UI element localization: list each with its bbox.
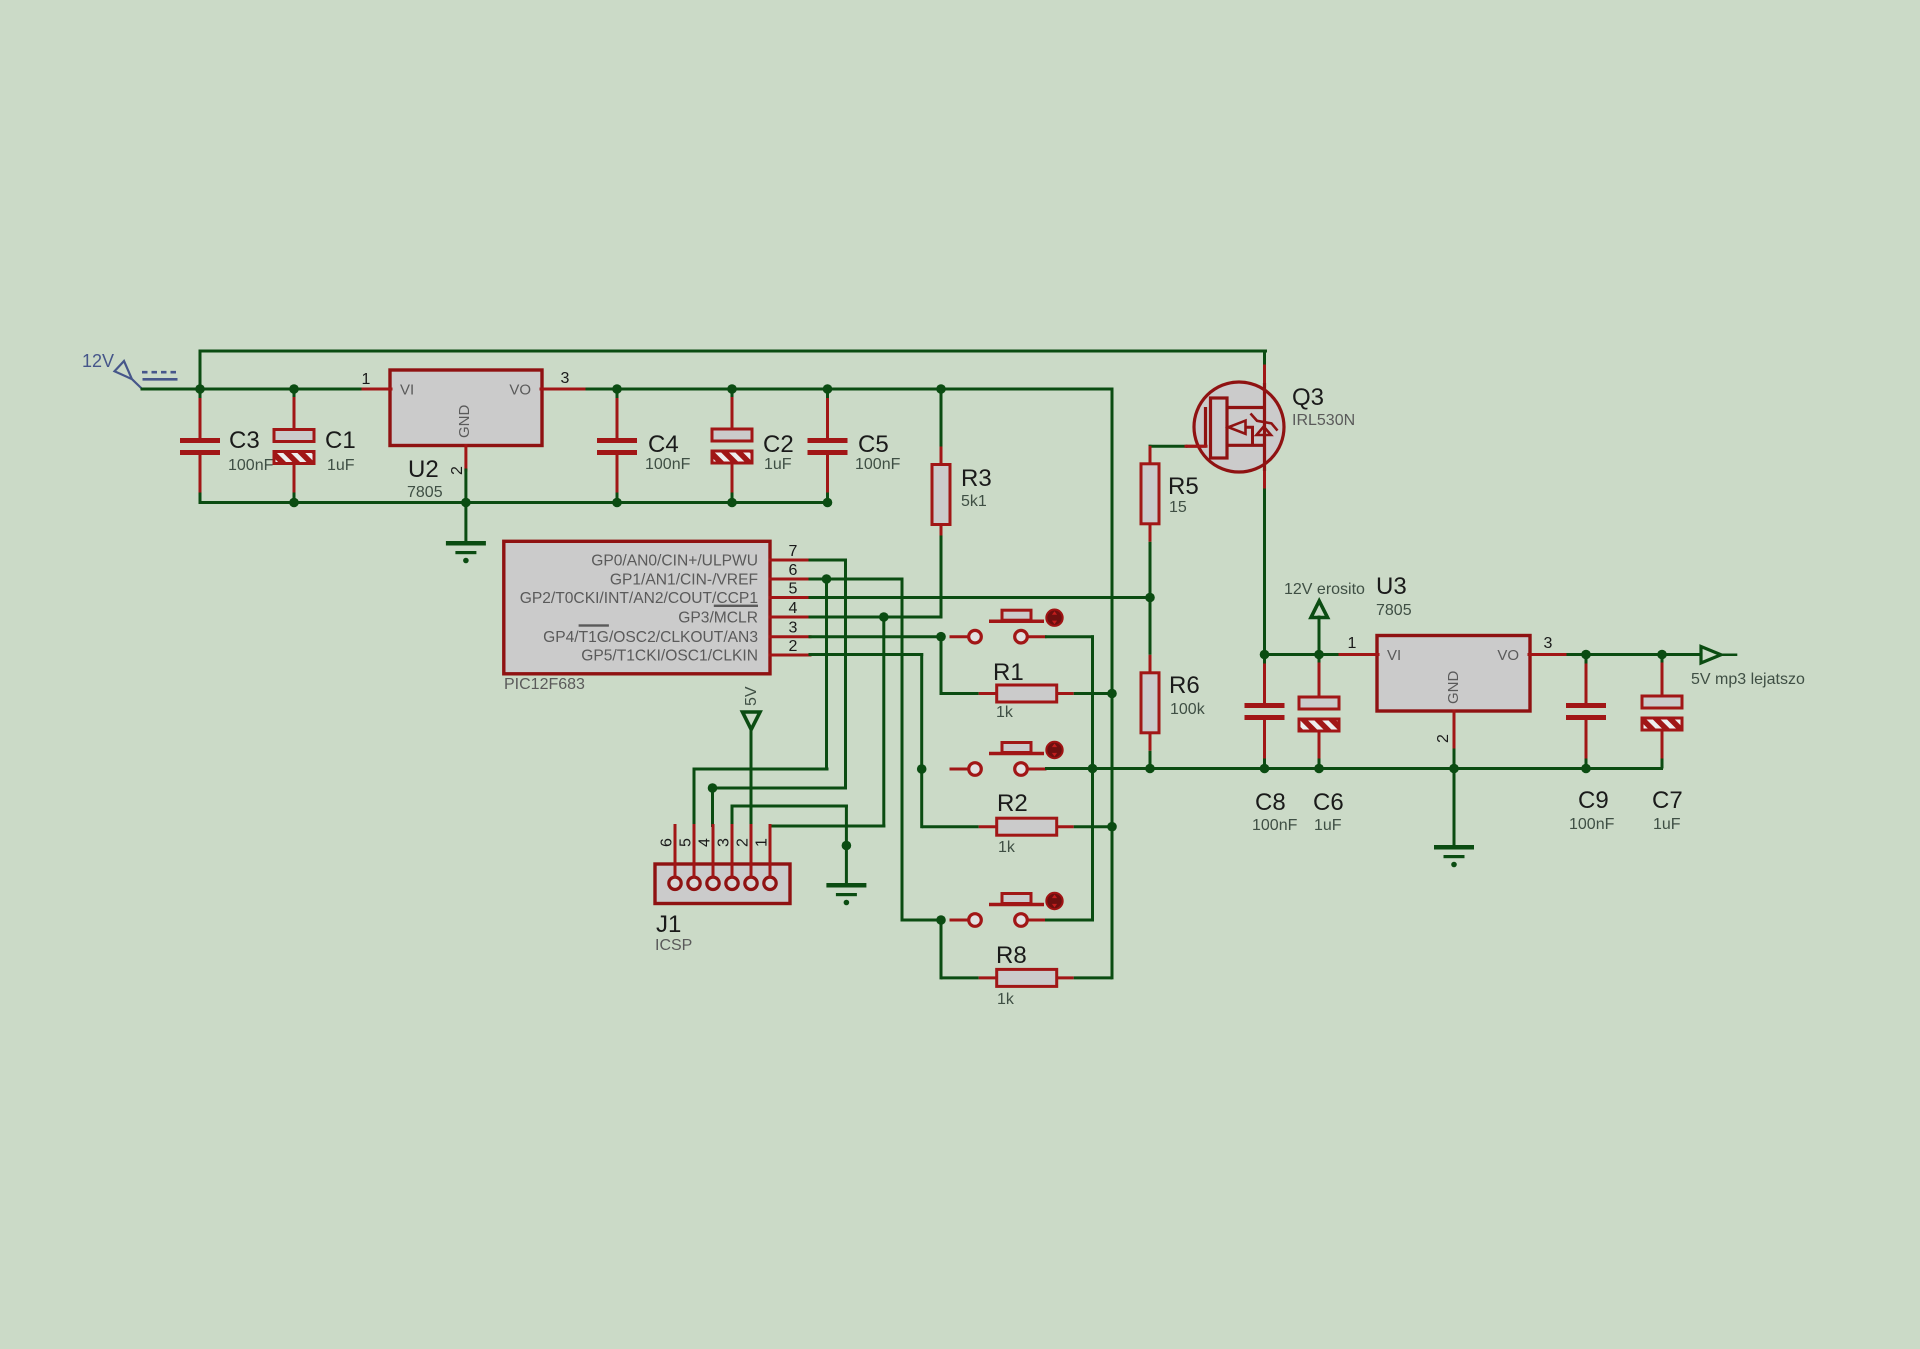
svg-text:GP0/AN0/CIN+/ULPWU: GP0/AN0/CIN+/ULPWU — [591, 553, 758, 570]
wire 12V input to U2 VI — [142, 388, 363, 391]
svg-text:C9: C9 — [1578, 787, 1609, 814]
wire Q3 source down to 12V-switched node — [1263, 490, 1266, 655]
svg-text:J1: J1 — [656, 911, 681, 938]
svg-text:15: 15 — [1169, 499, 1187, 516]
junction GP2/R5/R6 — [1145, 593, 1155, 603]
PIC pin 7 stub — [770, 559, 810, 562]
svg-text:4: 4 — [697, 838, 714, 847]
svg-text:3: 3 — [789, 620, 798, 637]
capacitor C7 (electrolytic) — [1642, 655, 1682, 769]
capacitor C5 — [808, 389, 848, 503]
svg-text:U2: U2 — [408, 456, 439, 483]
J1 pin 6 — [669, 877, 681, 889]
svg-text:1: 1 — [362, 371, 371, 388]
wire button3 to gnd column — [1047, 919, 1093, 922]
svg-text:12V: 12V — [82, 351, 114, 371]
junction C8 on gnd rail — [1260, 764, 1270, 774]
U3 pin 2 stub — [1453, 711, 1456, 750]
wire GP1 vertical to button 3 — [901, 579, 904, 920]
svg-text:1: 1 — [1348, 635, 1357, 652]
svg-text:VO: VO — [509, 382, 531, 399]
resistor R2 1k — [922, 818, 1112, 835]
svg-text:1uF: 1uF — [1314, 817, 1342, 834]
svg-text:2: 2 — [735, 838, 752, 847]
PIC pin 3 stub — [770, 635, 810, 638]
wire ICSP gnd horizontal — [732, 805, 846, 808]
svg-text:ICSP: ICSP — [655, 937, 692, 954]
PIC pin 4 stub — [770, 616, 810, 619]
wire 5V rail (U2 VO) — [584, 388, 1112, 391]
junction 5V rail x=617 — [612, 384, 622, 394]
junction bottom rail x=465.9 — [461, 498, 471, 508]
IC U1 PIC12F683 box — [504, 541, 770, 674]
PIC pin 5 stub — [770, 596, 810, 599]
wire Q3 gate — [1150, 445, 1186, 448]
capacitor C3 — [180, 389, 220, 503]
svg-text:C4: C4 — [648, 431, 679, 458]
wire 5V to ICSP pin 2 — [750, 730, 753, 826]
svg-text:100nF: 100nF — [1252, 817, 1298, 834]
svg-text:6: 6 — [659, 838, 676, 847]
svg-text:3: 3 — [1544, 635, 1553, 652]
U3 pin 3 stub — [1529, 653, 1568, 656]
svg-text:5V mp3 lejatszo: 5V mp3 lejatszo — [1691, 671, 1805, 688]
svg-text:R6: R6 — [1169, 672, 1200, 699]
wire ICSP mclr horizontal (J1 pin 1) — [770, 825, 884, 828]
ground for U2 — [446, 541, 486, 563]
wire GP5 vertical to button 2 — [920, 655, 923, 770]
junction C6 on gnd rail — [1314, 764, 1324, 774]
junction bottom rail x=617 — [612, 498, 622, 508]
svg-text:100nF: 100nF — [645, 456, 691, 473]
svg-text:C7: C7 — [1652, 787, 1683, 814]
J1 pin 4 — [707, 877, 719, 889]
junction 5V rail x=941 — [936, 384, 946, 394]
junction ICSP dat corner — [708, 783, 718, 793]
resistor R3 5k1 — [932, 389, 950, 617]
junction GP4 node — [936, 632, 946, 642]
junction 5V rail x=827.5 — [823, 384, 833, 394]
svg-text:4: 4 — [789, 600, 798, 617]
capacitor C9 — [1566, 655, 1606, 769]
Q3 drain/source pin line — [1263, 366, 1266, 490]
resistor R1 1k — [941, 685, 1112, 702]
junction R1 to 5V feed — [1107, 689, 1117, 699]
overline over T1G — [579, 624, 609, 626]
svg-text:IRL530N: IRL530N — [1292, 412, 1355, 429]
svg-text:100nF: 100nF — [1569, 816, 1615, 833]
J1 pin 3 — [726, 877, 738, 889]
wire 5V feed down right side — [1111, 389, 1114, 978]
svg-text:1k: 1k — [997, 991, 1015, 1008]
U2 pin 1 stub — [363, 388, 391, 391]
wire GP1 down to R8 — [940, 920, 943, 978]
junction buttons-gnd on rail — [1088, 764, 1098, 774]
svg-text:C2: C2 — [763, 431, 794, 458]
wire GP5 down to R2 — [920, 769, 923, 827]
svg-text:3: 3 — [561, 370, 570, 387]
junction U3 gnd on rail — [1449, 764, 1459, 774]
svg-text:1k: 1k — [998, 839, 1016, 856]
junction GP1 / ICSP clk — [822, 574, 832, 584]
svg-text:2: 2 — [449, 466, 466, 475]
svg-text:C8: C8 — [1255, 789, 1286, 816]
svg-text:GP2/T0CKI/INT/AN2/COUT/CCP1: GP2/T0CKI/INT/AN2/COUT/CCP1 — [520, 590, 758, 607]
wire GP0 from pin 7 — [810, 559, 846, 562]
svg-text:100k: 100k — [1170, 701, 1206, 718]
PIC pin 2 stub — [770, 654, 810, 657]
wire ICSP gnd down to ground — [845, 806, 848, 883]
capacitor C6 (electrolytic) — [1299, 655, 1339, 769]
wire GP3/MCLR from pin 4 — [810, 616, 941, 619]
svg-text:R5: R5 — [1168, 473, 1199, 500]
wire GP1 from pin 6 — [810, 578, 902, 581]
DC symbol dashes — [142, 371, 178, 374]
junction C8 node — [1260, 650, 1270, 660]
svg-text:2: 2 — [1435, 734, 1452, 743]
ground for ICSP — [826, 883, 866, 905]
junction on gnd drop — [842, 841, 852, 851]
transistor Q3 IRL530N (N-MOSFET) — [1186, 382, 1284, 472]
svg-text:R3: R3 — [961, 465, 992, 492]
wire GP2/CCP1 from pin 5 to gate network — [810, 596, 1150, 599]
svg-text:GND: GND — [1445, 671, 1462, 705]
wire Q3 source to U3 VI — [1265, 653, 1341, 656]
wire GP0 vertical — [844, 560, 847, 788]
capacitor C8 — [1245, 655, 1285, 769]
overline over MCLR — [714, 605, 758, 607]
junction 12V rail x=200 — [195, 384, 205, 394]
junction MCLR / ICSP pin1 — [879, 612, 889, 622]
resistor R8 1k — [941, 969, 1112, 986]
capacitor C4 — [597, 389, 637, 503]
junction C9 on gnd rail — [1581, 764, 1591, 774]
svg-text:GND: GND — [456, 405, 473, 439]
svg-text:12V erosito: 12V erosito — [1284, 581, 1365, 598]
svg-text:C1: C1 — [325, 427, 356, 454]
junction GP1 node — [936, 915, 946, 925]
wire ICSP clk vertical — [825, 579, 828, 769]
wire ICSP dat horizontal — [713, 787, 846, 790]
wire power flag to node — [1318, 617, 1321, 655]
svg-text:1k: 1k — [996, 704, 1014, 721]
J1 pin 1 — [764, 877, 776, 889]
svg-text:6: 6 — [789, 562, 798, 579]
svg-text:5: 5 — [678, 838, 695, 847]
svg-text:R2: R2 — [997, 790, 1028, 817]
svg-text:GP3/MCLR: GP3/MCLR — [678, 610, 758, 627]
wire GP5 from pin 2 — [810, 653, 922, 656]
svg-text:R1: R1 — [993, 659, 1024, 686]
svg-text:Q3: Q3 — [1292, 384, 1324, 411]
push-button SW3 (GP1) — [950, 893, 1063, 927]
wire left drop to C3 — [199, 351, 202, 400]
svg-text:1uF: 1uF — [327, 457, 355, 474]
svg-text:R8: R8 — [996, 942, 1027, 969]
svg-text:C6: C6 — [1313, 789, 1344, 816]
svg-text:7805: 7805 — [1376, 602, 1412, 619]
svg-text:100nF: 100nF — [855, 456, 901, 473]
svg-text:C5: C5 — [858, 431, 889, 458]
junction bottom rail x=827.5 — [823, 498, 833, 508]
capacitor C2 (electrolytic) — [712, 389, 752, 503]
svg-text:VI: VI — [400, 382, 414, 399]
resistor R5 15 — [1141, 446, 1159, 598]
junction GP5 node — [917, 764, 927, 774]
svg-text:VO: VO — [1497, 647, 1519, 664]
junction bottom rail x=294 — [289, 498, 299, 508]
wire down to J1 pin 4 — [711, 788, 714, 826]
junction C9 node — [1581, 650, 1591, 660]
svg-text:2: 2 — [789, 638, 798, 655]
wire ground rail — [1047, 767, 1662, 770]
wire MCLR up to R3 — [940, 537, 943, 617]
wire button1 to gnd column — [1047, 635, 1093, 638]
wire 12V rail down to Q3 drain — [1263, 351, 1266, 366]
junction 12V rail x=294 — [289, 384, 299, 394]
svg-text:5V: 5V — [743, 686, 760, 706]
12V input terminal arrow — [115, 361, 143, 390]
junction C6 node — [1314, 650, 1324, 660]
wire down to J1 pin 3 — [731, 806, 734, 826]
wire C3 bottom to rail — [199, 492, 202, 503]
ground for U3 — [1434, 845, 1474, 867]
wire U3 VO to output — [1568, 653, 1701, 656]
wire buttons gnd column — [1091, 637, 1094, 920]
svg-text:GP5/T1CKI/OSC1/CLKIN: GP5/T1CKI/OSC1/CLKIN — [581, 648, 758, 665]
J1 pin 2 — [745, 877, 757, 889]
wire ICSP clk horizontal — [694, 768, 827, 771]
svg-text:PIC12F683: PIC12F683 — [504, 676, 585, 693]
svg-text:U3: U3 — [1376, 573, 1407, 600]
wire GP4 from pin 3 to button 1 — [810, 635, 941, 638]
PIC pin 6 stub — [770, 578, 810, 581]
svg-text:GP1/AN1/CIN-/VREF: GP1/AN1/CIN-/VREF — [610, 572, 758, 589]
wire MCLR down to ICSP — [882, 617, 885, 826]
svg-text:7: 7 — [789, 543, 798, 560]
junction C7 node — [1657, 650, 1667, 660]
svg-text:5k1: 5k1 — [961, 493, 987, 510]
junction R6 on rail — [1145, 764, 1155, 774]
regulator U2 7805 box — [390, 370, 542, 446]
svg-text:1: 1 — [754, 838, 771, 847]
U3 pin 1 stub — [1340, 653, 1378, 656]
junction 5V rail x=732 — [727, 384, 737, 394]
regulator U3 7805 box — [1377, 636, 1530, 712]
U2 pin 3 stub — [541, 388, 584, 391]
junction R2 to 5V feed — [1107, 822, 1117, 832]
svg-text:5: 5 — [789, 581, 798, 598]
capacitor C1 (electrolytic) — [274, 389, 314, 503]
svg-text:VI: VI — [1387, 647, 1401, 664]
push-button SW1 (GP4) — [950, 610, 1063, 644]
svg-text:100nF: 100nF — [228, 457, 274, 474]
wire GP4 down to R1 — [940, 637, 943, 694]
svg-text:1uF: 1uF — [1653, 816, 1681, 833]
svg-text:C3: C3 — [229, 427, 260, 454]
svg-text:1uF: 1uF — [764, 456, 792, 473]
svg-text:3: 3 — [716, 838, 733, 847]
U2 pin 2 (GND) stub — [464, 446, 467, 471]
junction bottom rail x=732 — [727, 498, 737, 508]
push-button SW2 (GP5) — [950, 742, 1063, 776]
output terminal 5V mp3 lejatszo — [1701, 647, 1721, 664]
wire GP1 to button 3 — [902, 919, 941, 922]
J1 pin 5 — [688, 877, 700, 889]
wire 12V top rail — [200, 350, 1266, 353]
wire down to J1 pin 5 — [693, 769, 696, 826]
connector J1 ICSP box — [655, 864, 790, 904]
svg-text:GP4/T1G/OSC2/CLKOUT/AN3: GP4/T1G/OSC2/CLKOUT/AN3 — [543, 629, 758, 646]
wire ground-return bottom rail — [200, 501, 828, 504]
resistor R6 100k — [1141, 598, 1159, 770]
svg-text:7805: 7805 — [407, 484, 443, 501]
